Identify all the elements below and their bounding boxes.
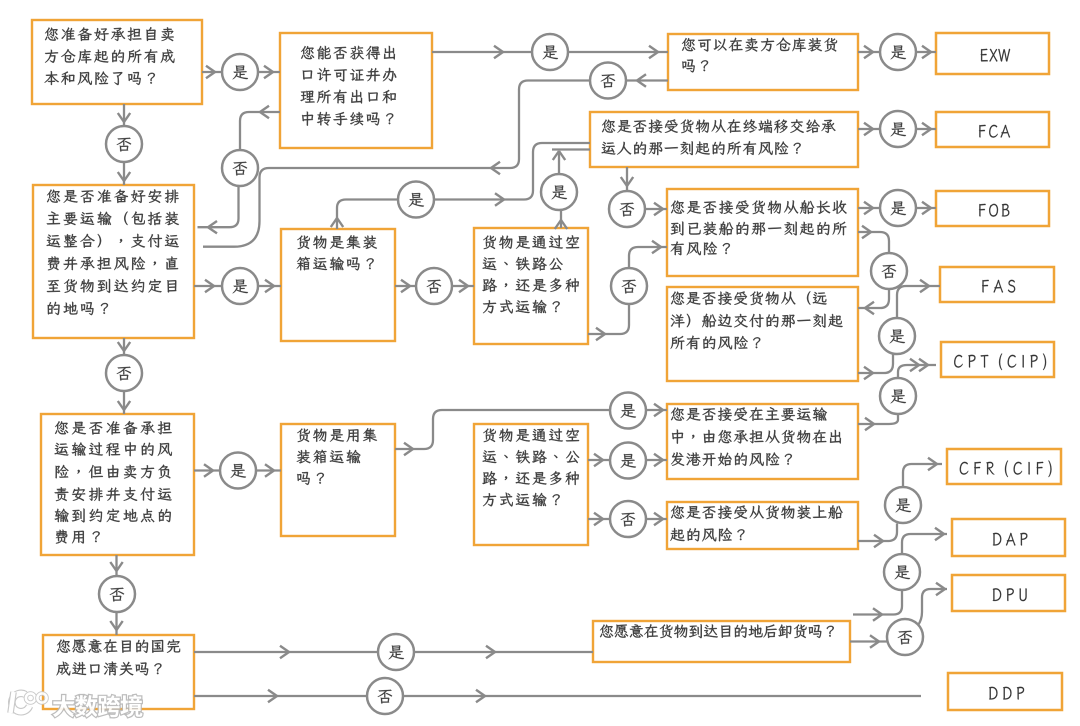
wire Q8 yes path up to long line and yes-circle C18 bbox=[395, 410, 610, 455]
wire corner line to yes-circle C24 bbox=[853, 591, 902, 621]
node yes circle C24 (DAP yes) bbox=[884, 554, 920, 590]
wire QFCA down to no-circle C7 bbox=[621, 167, 633, 190]
node yes circle C13 (QFOB yes) bbox=[880, 190, 916, 226]
result box EXW bbox=[936, 33, 1049, 74]
node yes circle C3 (Q2 yes) bbox=[532, 34, 568, 70]
node no circle C4 (Q3 no) bbox=[590, 63, 626, 99]
wire yes-circle C23 up to CFR box bbox=[903, 458, 942, 487]
wire QFCA to yes-circle C6 bbox=[858, 123, 880, 135]
result box DPU bbox=[952, 575, 1065, 611]
question box Q11: willing to unload after goods arrive at destination bbox=[593, 621, 850, 662]
question box Q4b: bear risk in transit but seller arranges freight bbox=[41, 414, 194, 555]
wire yes-circle C8 to QFCA bbox=[435, 143, 591, 206]
wire Q4b down to no-circle C22 bbox=[110, 555, 122, 576]
wire Q10 yes line to Q11 bbox=[194, 646, 593, 658]
wire QCFR right to yes-circle C23 bbox=[858, 524, 897, 548]
wire yes-circle C15 up to FAS box bbox=[897, 280, 940, 318]
watermark logo and text dashukuajing bbox=[11, 692, 143, 717]
wire Q6 right to no-circle C10 bbox=[588, 305, 629, 341]
wire yes-circle C11 to Q5 bbox=[259, 280, 282, 292]
question box Q5: is cargo containerised (row2) bbox=[281, 229, 395, 341]
wire QFOB to no-circle C14 bbox=[858, 226, 889, 253]
wire yes-circle to Q2 bbox=[259, 66, 281, 78]
question box QCPT: accept risk from port of departure during main transport bbox=[667, 404, 858, 479]
node no circle C25 (Q11 no) bbox=[887, 619, 923, 655]
node yes circle C19 (Q9 yes) bbox=[610, 443, 646, 479]
wire no-circle down to Q4 bbox=[118, 163, 130, 186]
node yes circle C21 (Q4b yes) bbox=[220, 453, 256, 489]
wire no-circle C22 down to Q10 bbox=[110, 613, 122, 636]
result box DAP bbox=[952, 519, 1065, 556]
node no circle C10 (Q6 no) bbox=[611, 268, 647, 304]
question box Q8: is cargo containerised (row3) bbox=[281, 424, 395, 536]
node yes circle C23 (QCFR yes) bbox=[885, 487, 921, 523]
wire no-circle C17 to Q6 bbox=[453, 280, 475, 292]
result box FOB bbox=[936, 191, 1049, 226]
wire Q2 left to no-circle C5 bbox=[240, 106, 280, 150]
result box CFR (CIF) bbox=[947, 449, 1061, 484]
wire Q5 top up to yes-circle C8 bbox=[331, 200, 398, 230]
wire yes-circle C13 to FOB box bbox=[917, 202, 937, 214]
wire yes-circle C19 to QCPT bbox=[647, 454, 668, 466]
node no circle C12 (Q4 no) bbox=[106, 355, 142, 391]
question box QFOB: accept risk from captain received goods on board bbox=[667, 189, 858, 276]
result box FCA bbox=[936, 112, 1049, 147]
wire Q3 left to no-circle C4 bbox=[627, 74, 669, 86]
node yes circle C1 (Q1 yes) bbox=[222, 54, 258, 90]
wire Q1 down to no-circle bbox=[118, 104, 130, 126]
question box QFAS: accept risk from delivery alongside ocean vessel bbox=[667, 287, 858, 381]
result box FAS bbox=[940, 267, 1054, 302]
wire yes-circle C6 to FCA box bbox=[917, 123, 937, 135]
question box Q1: ready to bear all cost and risk from seller warehouse bbox=[32, 20, 202, 104]
wire Q6 top up to yes-circle C9 bbox=[555, 211, 567, 230]
node no circle C20 (Q9 no) bbox=[610, 501, 646, 537]
wire no-circle C14 down to QFAS bbox=[858, 290, 889, 315]
wire no-circle C7 to QFOB bbox=[646, 203, 668, 215]
result box DDP bbox=[948, 673, 1062, 710]
node yes circle C11 (Q4 yes) bbox=[222, 268, 258, 304]
wire no-circle C20 to QCFR bbox=[647, 513, 668, 525]
node no circle C5 (Q2 no) bbox=[222, 150, 258, 186]
wire Q3 to yes-circle C0 bbox=[858, 46, 880, 58]
question box QFCA: accept all risk from handover to carrier at terminal bbox=[590, 112, 858, 167]
wire Q4 down to no-circle C12 bbox=[118, 338, 130, 355]
wire Q4 to yes-circle C11 bbox=[194, 280, 222, 292]
wire Q10 no line DDP bbox=[194, 690, 921, 702]
node yes circle C8 (Q5 yes) bbox=[398, 182, 434, 218]
node yes circle C0 (Q3 yes) bbox=[880, 34, 916, 70]
wire Q2 to yes-circle C3 bbox=[432, 46, 532, 58]
node yes circle C6 (FCA yes) bbox=[880, 111, 916, 147]
node no circle C27 (Q10 no) bbox=[367, 678, 403, 714]
node yes circle C26 (Q10 yes) bbox=[378, 634, 414, 670]
wire yes-circle C16 up to CPT box bbox=[898, 359, 936, 378]
node yes circle C18 (Q8 yes) bbox=[610, 393, 646, 429]
wire yes-circle C18 to QCPT bbox=[647, 404, 668, 416]
wire no-circle C10 up to QFOB bbox=[629, 241, 667, 268]
wire Q9 to yes-circle C19 bbox=[588, 454, 610, 466]
wire yes-circle C9 up to QFCA bbox=[552, 150, 590, 174]
wire Q11 to no-circle C25 bbox=[850, 635, 887, 647]
node no circle C17 (Q5 no) bbox=[416, 268, 452, 304]
node no circle C7 (QFCA no) bbox=[609, 191, 645, 227]
wire QFOB to yes-circle C13 bbox=[858, 202, 880, 214]
question box Q3: can you load at seller warehouse bbox=[668, 34, 858, 90]
wire no-circle C5 to Q4 right edge bbox=[198, 187, 239, 234]
node no circle C14 (QFOB no) bbox=[871, 253, 907, 289]
result box CPT (CIP) bbox=[941, 342, 1054, 377]
question box Q2: can you get export licence bbox=[280, 33, 432, 148]
node yes circle C16 (QCPT yes) bbox=[880, 378, 916, 414]
wire QCPT right to yes-circle C16 bbox=[858, 415, 898, 431]
wire no-circle C25 up to DPU box bbox=[906, 583, 947, 635]
wire Q4b to yes-circle C21 bbox=[194, 464, 220, 476]
wire yes-circle C0 to EXW box bbox=[917, 46, 937, 58]
question box Q10: willing to clear import customs in destination country bbox=[43, 635, 194, 709]
node yes circle C9 (Q6 yes) bbox=[541, 174, 577, 210]
question box Q6: air rail road or multimodal (row2) bbox=[474, 228, 588, 344]
question box QCFR: accept risk from goods loaded on vessel bbox=[667, 502, 858, 549]
node yes circle C15 (QFAS yes) bbox=[879, 318, 915, 354]
wire no-circle C12 down to Q4b bbox=[118, 392, 130, 415]
wire Q1 yes-circle bbox=[202, 66, 222, 78]
wire Q5 to no-circle C17 bbox=[395, 280, 416, 292]
wire no-circle C4 S-path down to Q4 right edge bbox=[203, 81, 590, 247]
node no circle C22 (Q4b no) bbox=[99, 576, 135, 612]
question box Q9: air rail road or multimodal (row3) bbox=[474, 424, 588, 545]
wire QFAS right to yes-circle C15 bbox=[858, 355, 893, 380]
question box Q4: arrange main transport pay freight bear risk bbox=[33, 185, 194, 338]
wire Q9 to no-circle C20 bbox=[588, 513, 610, 525]
wire yes-circle C3 to Q3 bbox=[569, 46, 669, 58]
node no circle C2 (Q1 no) bbox=[106, 126, 142, 162]
wire yes-circle C24 up to DAP box bbox=[902, 528, 947, 554]
wire yes-circle C21 to Q8 bbox=[257, 464, 282, 476]
